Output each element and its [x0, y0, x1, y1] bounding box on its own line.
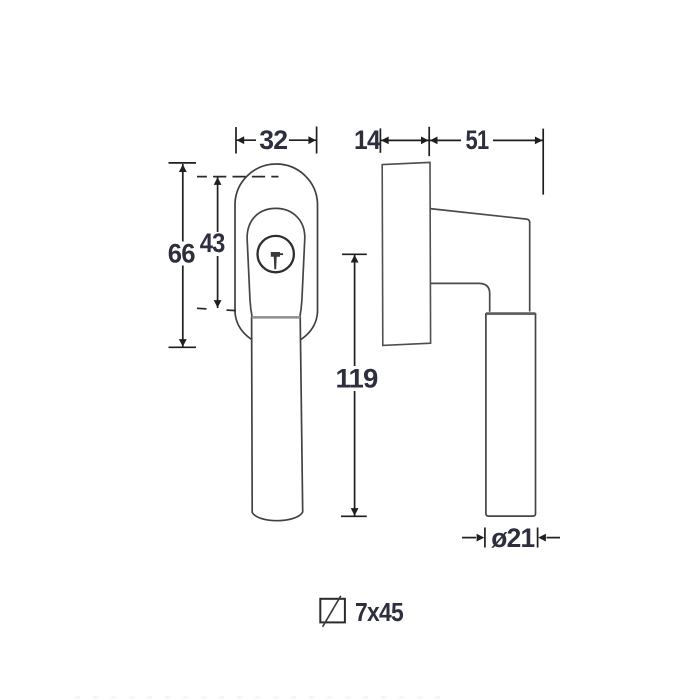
dimension 119: top T-bar [342, 253, 367, 255]
dimension 32: left tick [235, 127, 237, 154]
svg-text:51: 51 [466, 125, 490, 155]
side view: neck bottom contour [430, 283, 490, 311]
dimension 66: top T-bar [169, 162, 197, 164]
side view: rose plate [382, 162, 430, 345]
left view: grip top edge line [252, 316, 301, 319]
left view: rose plate outer obround [235, 164, 318, 347]
svg-text:119: 119 [336, 364, 379, 394]
side view: neck top contour [430, 209, 530, 312]
dimension 66: arrowheads [179, 164, 187, 172]
svg-text:ø21: ø21 [491, 523, 535, 553]
dimension 32: arrowheads [237, 136, 245, 144]
dimension 119: arrowheads [351, 255, 359, 263]
side view: grip top edge [486, 312, 536, 314]
svg-text:14: 14 [354, 125, 381, 155]
dimension 51: line with arrows [430, 139, 543, 141]
dimension d21: left tick [484, 528, 486, 548]
faint cropped text row at bottom [75, 696, 448, 698]
dimension d21: right tick [537, 528, 539, 548]
svg-text:43: 43 [200, 228, 226, 258]
left view: inner pear-shaped boss [247, 208, 305, 318]
dimension d21: left arrow [462, 537, 476, 539]
dimension d21: right arrow [547, 537, 561, 539]
dimension 43: vertical line [217, 177, 219, 308]
dimension 66: bottom T-bar [169, 346, 197, 348]
dashed reference mark bottom of 43 [197, 308, 236, 310]
dimension 14/51: middle tick [428, 127, 430, 156]
dimension 43: arrowheads [214, 177, 222, 185]
left view: key slot [271, 252, 280, 269]
dimension 66: vertical line [182, 164, 184, 347]
left view: cylinder circle [258, 236, 294, 272]
dashed reference line top [197, 176, 279, 178]
dimension 119: vertical line [354, 255, 356, 516]
svg-text:32: 32 [259, 125, 287, 155]
side view: grip [486, 314, 536, 516]
dimension 119: bottom T-bar [341, 515, 367, 517]
svg-text:66: 66 [168, 239, 196, 269]
dimension 32: line [237, 139, 317, 141]
left view: lever grip [252, 317, 303, 520]
dimension 32: right tick [316, 127, 318, 154]
spindle square symbol [320, 599, 345, 623]
dimension 14: left tick [379, 128, 381, 152]
svg-text:7x45: 7x45 [355, 599, 404, 627]
dimension 51: right extension line [542, 129, 544, 195]
dimension 14: line with arrows [381, 139, 429, 141]
spindle square diagonal [323, 596, 341, 627]
